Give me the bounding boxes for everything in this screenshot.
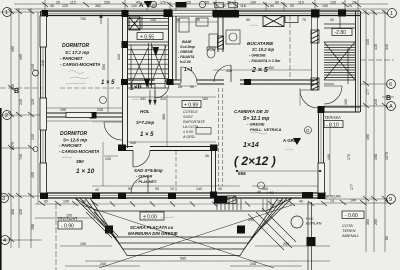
svg-text:- GRESIE: - GRESIE bbox=[249, 54, 266, 58]
svg-text:BUCATARIE: BUCATARIE bbox=[247, 41, 274, 46]
svg-text:G: G bbox=[306, 128, 310, 133]
svg-text:55: 55 bbox=[246, 18, 250, 22]
svg-text:( 2×12 ): ( 2×12 ) bbox=[234, 154, 276, 168]
svg-text:198: 198 bbox=[176, 4, 182, 8]
svg-text:60: 60 bbox=[82, 200, 86, 204]
svg-text:1 × 10: 1 × 10 bbox=[76, 168, 95, 175]
svg-text:1 × 5: 1 × 5 bbox=[101, 80, 115, 86]
svg-text:-2.80: -2.80 bbox=[335, 30, 347, 36]
svg-text:+ 0.55: + 0.55 bbox=[140, 34, 154, 40]
svg-text:365: 365 bbox=[162, 114, 166, 120]
svg-text:170: 170 bbox=[160, 1, 166, 5]
svg-text:55: 55 bbox=[205, 1, 209, 5]
svg-text:750: 750 bbox=[80, 17, 86, 21]
svg-text:430: 430 bbox=[226, 69, 232, 73]
svg-text:363: 363 bbox=[366, 219, 370, 225]
svg-text:362: 362 bbox=[95, 4, 101, 8]
svg-text:10: 10 bbox=[170, 187, 174, 191]
svg-text:1075: 1075 bbox=[385, 152, 389, 160]
svg-text:150: 150 bbox=[344, 99, 348, 105]
svg-text:350: 350 bbox=[11, 84, 15, 90]
svg-text:40: 40 bbox=[95, 188, 99, 192]
svg-text:115: 115 bbox=[298, 1, 304, 5]
svg-text:740: 740 bbox=[19, 154, 23, 160]
svg-text:250: 250 bbox=[104, 1, 110, 5]
svg-text:DORMITOR: DORMITOR bbox=[60, 131, 88, 137]
svg-text:140: 140 bbox=[150, 18, 156, 22]
svg-text:140: 140 bbox=[196, 187, 202, 191]
svg-text:60: 60 bbox=[275, 1, 279, 5]
svg-text:590: 590 bbox=[102, 64, 106, 70]
svg-text:A GRD: A GRD bbox=[283, 138, 297, 143]
svg-text:245: 245 bbox=[97, 108, 103, 112]
svg-text:240: 240 bbox=[105, 157, 111, 161]
svg-text:80: 80 bbox=[385, 236, 389, 240]
svg-text:- PLACHET.: - PLACHET. bbox=[136, 180, 157, 184]
svg-text:245: 245 bbox=[100, 262, 106, 266]
svg-text:6: 6 bbox=[389, 82, 392, 88]
svg-text:A GRD.: A GRD. bbox=[182, 135, 196, 139]
svg-text:177: 177 bbox=[366, 89, 370, 95]
svg-text:30: 30 bbox=[290, 4, 294, 8]
svg-text:310: 310 bbox=[160, 97, 166, 101]
svg-text:390: 390 bbox=[76, 159, 84, 164]
svg-text:60: 60 bbox=[44, 200, 48, 204]
svg-text:340: 340 bbox=[130, 141, 136, 145]
svg-text:1×1: 1×1 bbox=[184, 67, 193, 73]
svg-text:1: 1 bbox=[5, 10, 8, 16]
svg-text:255: 255 bbox=[374, 219, 378, 225]
svg-text:25: 25 bbox=[56, 1, 60, 5]
svg-text:140: 140 bbox=[350, 199, 356, 203]
svg-text:120: 120 bbox=[31, 99, 35, 105]
svg-text:48: 48 bbox=[257, 190, 261, 194]
svg-text:441: 441 bbox=[140, 97, 146, 101]
svg-text:SCARA PLACATA cu: SCARA PLACATA cu bbox=[130, 225, 173, 230]
svg-text:245: 245 bbox=[374, 99, 378, 105]
svg-text:345: 345 bbox=[385, 44, 389, 50]
svg-text:180: 180 bbox=[262, 187, 268, 191]
svg-text:40: 40 bbox=[299, 200, 303, 204]
svg-text:- 0.90: - 0.90 bbox=[61, 223, 74, 229]
svg-text:3: 3 bbox=[2, 196, 5, 202]
svg-text:120: 120 bbox=[62, 4, 68, 8]
svg-text:40: 40 bbox=[196, 18, 200, 22]
svg-text:14: 14 bbox=[330, 199, 334, 203]
svg-text:S= 17.2 mp: S= 17.2 mp bbox=[65, 50, 89, 55]
svg-text:BAIE: BAIE bbox=[182, 39, 192, 44]
svg-text:195: 195 bbox=[60, 108, 66, 112]
svg-text:20: 20 bbox=[352, 1, 356, 5]
svg-text:26: 26 bbox=[178, 85, 182, 89]
svg-text:- PARCHET: - PARCHET bbox=[59, 143, 82, 148]
svg-text:585: 585 bbox=[180, 257, 186, 261]
svg-text:490: 490 bbox=[11, 46, 15, 52]
svg-text:± 0.00: ± 0.00 bbox=[143, 214, 157, 220]
svg-text:+ 0.99: + 0.99 bbox=[184, 102, 198, 108]
svg-text:LA COTA: LA COTA bbox=[183, 125, 199, 129]
svg-text:2 × 5: 2 × 5 bbox=[251, 67, 268, 74]
svg-text:BURLAN: BURLAN bbox=[326, 195, 341, 199]
svg-text:- CARGO-MOCHETA: - CARGO-MOCHETA bbox=[59, 149, 99, 154]
svg-text:- 0.60: - 0.60 bbox=[345, 213, 358, 219]
svg-text:90: 90 bbox=[190, 85, 194, 89]
svg-text:SAD S=9.8mp: SAD S=9.8mp bbox=[134, 168, 163, 173]
svg-text:4×90: 4×90 bbox=[266, 191, 274, 195]
svg-text:- CARGO-MOCHETA: - CARGO-MOCHETA bbox=[60, 62, 100, 67]
svg-text:MARMURA DIN GRESIE: MARMURA DIN GRESIE bbox=[128, 231, 179, 236]
svg-text:DORMITOR: DORMITOR bbox=[62, 43, 90, 49]
svg-text:60: 60 bbox=[152, 4, 156, 8]
svg-text:198: 198 bbox=[31, 224, 35, 230]
svg-text:- PARCHET: - PARCHET bbox=[60, 56, 83, 61]
svg-text:195: 195 bbox=[80, 242, 86, 246]
svg-text:SUNT: SUNT bbox=[183, 115, 194, 119]
svg-text:25: 25 bbox=[348, 4, 352, 8]
svg-text:140: 140 bbox=[322, 4, 328, 8]
svg-text:4: 4 bbox=[3, 238, 6, 244]
svg-text:40: 40 bbox=[136, 1, 140, 5]
svg-text:- FAIANTA: - FAIANTA bbox=[178, 55, 195, 59]
svg-text:490: 490 bbox=[327, 154, 331, 160]
svg-text:40: 40 bbox=[50, 4, 54, 8]
svg-text:90: 90 bbox=[155, 187, 159, 191]
svg-text:- GRESIE: - GRESIE bbox=[247, 122, 265, 127]
svg-text:30: 30 bbox=[330, 18, 334, 22]
svg-text:S= 10.2 mp: S= 10.2 mp bbox=[252, 47, 274, 52]
svg-text:345: 345 bbox=[366, 39, 370, 45]
svg-text:116: 116 bbox=[240, 4, 246, 8]
svg-text:S=7.2mp: S=7.2mp bbox=[136, 120, 155, 125]
svg-text:255: 255 bbox=[283, 242, 289, 246]
svg-text:340: 340 bbox=[117, 54, 121, 60]
svg-text:1: 1 bbox=[390, 11, 393, 17]
svg-text:595: 595 bbox=[248, 218, 254, 222]
svg-text:RAPORTATE: RAPORTATE bbox=[183, 120, 205, 124]
svg-text:195: 195 bbox=[66, 214, 72, 218]
svg-text:90: 90 bbox=[270, 4, 274, 8]
svg-text:425: 425 bbox=[19, 209, 23, 215]
svg-text:240: 240 bbox=[19, 99, 23, 105]
svg-text:75: 75 bbox=[302, 18, 306, 22]
svg-text:115: 115 bbox=[70, 1, 76, 5]
svg-text:CAMERA DE ZI: CAMERA DE ZI bbox=[234, 109, 269, 115]
svg-text:240: 240 bbox=[31, 134, 35, 140]
svg-text:h=2.00: h=2.00 bbox=[180, 60, 191, 64]
svg-text:- 0.10: - 0.10 bbox=[326, 122, 339, 128]
svg-text:120: 120 bbox=[185, 1, 191, 5]
svg-text:30: 30 bbox=[222, 4, 226, 8]
svg-text:1075: 1075 bbox=[11, 142, 15, 150]
svg-text:TERASA: TERASA bbox=[324, 115, 341, 120]
svg-text:- FAIANTA h 1.5m: - FAIANTA h 1.5m bbox=[249, 59, 281, 63]
svg-text:450: 450 bbox=[268, 66, 274, 70]
svg-text:135: 135 bbox=[330, 1, 336, 5]
svg-text:- COVOR: - COVOR bbox=[136, 175, 153, 179]
svg-text:240: 240 bbox=[41, 60, 45, 66]
svg-text:AMENAJ.: AMENAJ. bbox=[341, 233, 359, 238]
svg-text:90: 90 bbox=[128, 187, 132, 191]
svg-text:PVC: PVC bbox=[306, 217, 314, 221]
svg-text:240: 240 bbox=[31, 64, 35, 70]
svg-text:HOL: HOL bbox=[140, 109, 150, 114]
svg-text:415: 415 bbox=[374, 44, 378, 50]
svg-text:A: A bbox=[389, 104, 393, 110]
svg-text:90: 90 bbox=[176, 18, 180, 22]
svg-text:B: B bbox=[386, 95, 391, 102]
svg-text:495: 495 bbox=[19, 54, 23, 60]
svg-text:COTELE: COTELE bbox=[183, 110, 198, 114]
svg-text:BURLAN: BURLAN bbox=[306, 222, 322, 226]
svg-text:S=4.5mp: S=4.5mp bbox=[180, 45, 196, 49]
svg-text:198: 198 bbox=[374, 154, 378, 160]
svg-text:170: 170 bbox=[347, 154, 351, 160]
svg-text:245: 245 bbox=[250, 262, 256, 266]
svg-text:195: 195 bbox=[63, 200, 69, 204]
svg-text:140: 140 bbox=[250, 1, 256, 5]
svg-text:490: 490 bbox=[366, 134, 370, 140]
svg-text:- GRESIE: - GRESIE bbox=[178, 50, 194, 54]
svg-text:S= 12.6 mp: S= 12.6 mp bbox=[63, 138, 87, 143]
svg-text:140: 140 bbox=[131, 4, 137, 8]
svg-text:368: 368 bbox=[11, 209, 15, 215]
svg-text:46: 46 bbox=[205, 154, 209, 158]
svg-text:405: 405 bbox=[31, 172, 35, 178]
svg-text:177: 177 bbox=[350, 184, 354, 190]
svg-text:9: 9 bbox=[389, 197, 392, 203]
svg-text:PHILL. VETRICA: PHILL. VETRICA bbox=[250, 127, 281, 132]
svg-text:40: 40 bbox=[218, 187, 222, 191]
svg-text:160: 160 bbox=[202, 97, 208, 101]
svg-text:25: 25 bbox=[227, 1, 231, 5]
svg-text:1×14: 1×14 bbox=[243, 142, 259, 149]
svg-text:255: 255 bbox=[277, 200, 283, 204]
svg-text:655: 655 bbox=[238, 171, 246, 176]
svg-text:± 0.00: ± 0.00 bbox=[183, 130, 194, 134]
svg-text:2: 2 bbox=[5, 113, 8, 119]
svg-text:1 × 5: 1 × 5 bbox=[140, 132, 154, 138]
